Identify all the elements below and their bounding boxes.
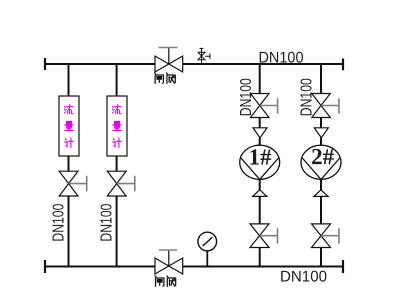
svg-text:1#: 1# — [248, 144, 272, 169]
wire: pump 2 outlet — [320, 179, 322, 189]
wire: branch 2 to bottom header — [320, 248, 322, 267]
gate valve V2 handwheel bar — [159, 249, 177, 251]
butterfly valve on flow-meter branch 2 — [107, 171, 126, 196]
wire: flow-meter branch 2 drop from top header — [116, 64, 118, 96]
svg-text:DN100: DN100 — [99, 204, 116, 242]
wire: branch 1 to bottom header — [68, 196, 70, 267]
wire: reducer to bottom valve branch 1 — [259, 196, 261, 224]
node: top header right end tick — [342, 59, 344, 71]
wire: pump branch 2 drop from top header — [320, 64, 322, 94]
wire: pump branch 1 drop from top header — [259, 64, 261, 94]
valve handle pump branch 2 bottom — [321, 228, 339, 243]
gate valve V2 on bottom header — [155, 250, 183, 274]
reducer (down triangle) above pump 2 — [314, 128, 328, 138]
label: 闸阀 for top gate valve — [155, 73, 176, 84]
svg-text:2#: 2# — [311, 144, 335, 169]
svg-text:DN100: DN100 — [280, 268, 327, 285]
svg-text:DN100: DN100 — [238, 78, 255, 116]
butterfly valve pump branch 2 bottom — [312, 224, 331, 248]
node: top header left end tick — [44, 58, 46, 70]
valve handle branch 2 — [117, 176, 135, 192]
butterfly valve on flow-meter branch 1 — [59, 171, 78, 196]
wire: branch 2 between FM2 and valve — [116, 156, 118, 171]
label: 流量计 inside flow meter FM2 — [112, 105, 121, 148]
wire: pump 1 outlet — [259, 179, 261, 189]
wire: branch 1 between FM1 and valve — [68, 156, 70, 171]
wire: branch 2 valve to reducer — [320, 118, 322, 128]
wire: reducer to pump 1 — [259, 138, 261, 146]
gate valve V1 on top header — [155, 48, 183, 73]
reducer (up triangle) below pump 1 — [253, 190, 267, 197]
svg-text:DN100: DN100 — [50, 204, 67, 242]
wire: top supply header pipe right segment — [183, 63, 343, 65]
reducer (up triangle) below pump 2 — [314, 190, 328, 197]
pump 2# body — [301, 145, 341, 179]
label: 流量计 inside flow meter FM1 — [64, 105, 73, 148]
svg-text:DN100: DN100 — [258, 49, 303, 66]
butterfly valve pump branch 2 top — [312, 94, 331, 118]
valve handle pump branch 2 top — [321, 98, 339, 114]
wire: branch 2 to bottom header — [116, 196, 118, 267]
wire: reducer to bottom valve branch 2 — [320, 196, 322, 224]
butterfly valve pump branch 1 bottom — [250, 224, 269, 248]
automatic air vent on top header — [198, 48, 210, 62]
valve handle branch 1 — [69, 176, 87, 192]
flow meter FM2 body — [107, 96, 127, 156]
wire: reducer to pump 2 — [320, 138, 322, 146]
pump 1# body — [240, 145, 280, 179]
valve handle pump branch 1 bottom — [260, 228, 278, 243]
valve handle pump branch 1 top — [260, 98, 278, 114]
pressure gauge on bottom header — [198, 232, 217, 266]
label: 闸阀 for bottom gate valve — [155, 276, 176, 287]
wire: flow-meter branch 1 drop from top header — [68, 64, 70, 96]
wire: top supply header pipe left segment — [45, 63, 155, 65]
butterfly valve pump branch 1 top — [251, 94, 270, 118]
node: bottom header right end tick — [342, 260, 344, 273]
gate valve V1 handwheel bar — [159, 47, 178, 49]
reducer (down triangle) above pump 1 — [253, 128, 267, 138]
wire: branch 1 to bottom header — [259, 248, 261, 267]
wire: bottom return header pipe left segment — [45, 266, 155, 268]
wire: branch 1 valve to reducer — [259, 118, 261, 128]
svg-text:DN100: DN100 — [298, 78, 315, 116]
wire: bottom return header pipe right segment — [183, 266, 343, 268]
flow meter FM1 body — [59, 96, 79, 156]
node: bottom header left end tick — [44, 260, 46, 273]
